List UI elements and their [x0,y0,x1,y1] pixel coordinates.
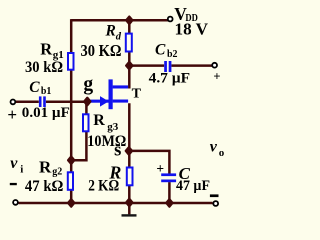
capacitor Cb1 plates [39,96,42,107]
node: divider junction [68,157,74,164]
svg-text:0.01 µF: 0.01 µF [22,105,70,121]
wire: capacitor C to bottom rail [168,182,171,203]
svg-text:47 kΩ: 47 kΩ [25,178,64,195]
wire: input to Cb1 left plate [16,100,39,103]
terminal: input (bottom left) [13,200,18,205]
transistor T (JFET) channel bar [109,79,113,109]
wire: top rail VDD [71,19,168,22]
resistor Rg1 [68,53,74,70]
svg-text:g: g [83,74,93,95]
label minus (vo) [210,194,219,197]
svg-text:o: o [219,147,225,159]
svg-text:C: C [155,42,166,59]
terminal: output (bottom right) [213,201,218,206]
svg-text:+: + [213,70,220,84]
svg-text:T: T [132,87,142,102]
wire: source node to capacitor C [129,151,170,174]
wire: gate node down through Rg3 to divider node [71,102,87,161]
svg-text:30 kΩ: 30 kΩ [25,59,63,76]
svg-text:2 KΩ: 2 KΩ [88,178,119,195]
node: bottom rail x C [166,199,172,206]
ground [128,203,131,214]
svg-text:R: R [105,23,116,40]
resistor R [127,168,133,186]
wire: source branch vertical [128,103,131,203]
wire: drain branch vertical [128,20,131,88]
node: bottom rail x R / ground [126,199,132,206]
transistor T gate lead [91,100,109,103]
label minus (vi) [10,183,17,185]
transistor T drain lead [113,85,129,88]
svg-text:s: s [114,141,121,161]
wire: drain node to Cb2 left plate [129,64,164,67]
node: bottom rail x Rg2 [68,199,74,206]
svg-text:+: + [7,105,17,124]
svg-text:R: R [40,39,53,58]
svg-text:C: C [29,79,40,96]
svg-text:b1: b1 [41,86,52,97]
svg-text:4.7 µF: 4.7 µF [149,71,191,87]
resistor Rg3 [83,114,89,131]
transistor T source lead [113,100,129,103]
svg-text:+: + [156,161,164,176]
terminal: input (top left) [11,100,16,105]
terminal: VDD [168,17,173,22]
svg-text:R: R [93,112,105,129]
svg-text:30 KΩ: 30 KΩ [81,41,122,60]
node: top rail x Rd junction [126,17,132,24]
wire: bottom rail [19,202,213,205]
wire: left vertical (Rg1/Rg2 branch) [70,19,73,203]
svg-text:47 µF: 47 µF [176,178,210,194]
node: Cb2 branch junction [126,62,132,69]
svg-text:R: R [39,157,52,176]
svg-text:g3: g3 [107,122,118,133]
svg-text:g2: g2 [52,167,62,178]
svg-text:v: v [10,155,18,172]
resistor Rg2 [68,172,73,190]
terminal: output (top right) [212,63,217,68]
transistor T gate arrow [100,96,109,107]
node g: gate junction [84,98,90,105]
capacitor Cb2 plates [164,61,167,72]
svg-text:i: i [20,163,23,175]
svg-text:18 V: 18 V [175,19,209,38]
capacitor C plates [161,173,176,176]
node s: source junction [126,147,132,154]
svg-text:b2: b2 [167,49,178,60]
resistor Rd [126,34,132,52]
wire: Cb1 right plate to gate node [46,100,91,103]
svg-text:v: v [210,138,218,155]
wire: Cb2 right plate to output terminal [172,64,213,67]
